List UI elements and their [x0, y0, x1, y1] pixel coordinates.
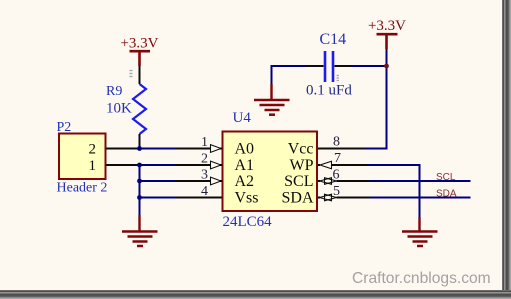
pin 2 of P2 (wire to node A0) — [106, 148, 140, 150]
svg-text:U4: U4 — [233, 110, 252, 126]
pin 1 of P2 (wire to ground node) — [106, 164, 140, 166]
svg-text:A1: A1 — [235, 157, 255, 174]
svg-text:10K: 10K — [106, 100, 132, 116]
svg-text:1: 1 — [201, 135, 208, 150]
svg-text:SDA: SDA — [436, 188, 457, 199]
svg-text:5: 5 — [333, 184, 340, 199]
no-ERC marker (gray dashes at C14) — [337, 76, 340, 81]
svg-text:+3.3V: +3.3V — [368, 18, 406, 34]
svg-text:2: 2 — [201, 152, 208, 167]
wire A2 row (blue) — [140, 180, 177, 182]
ground (right) — [402, 217, 438, 246]
U4 pin 2 (A1) — [176, 161, 222, 169]
wire Vss row (blue) — [140, 197, 177, 199]
wire net SDA — [370, 197, 471, 199]
junction node A0 — [137, 146, 142, 151]
resistor R9 — [133, 84, 146, 134]
svg-text:R9: R9 — [106, 84, 122, 99]
power symbol +3.3V bar (right) — [377, 34, 398, 49]
svg-text:0.1 uFd: 0.1 uFd — [306, 83, 352, 99]
wire (resistor to node A0) — [139, 134, 141, 149]
U4 pin 8 (Vcc) — [318, 148, 365, 150]
svg-text:SCL: SCL — [436, 172, 456, 183]
capacitor C14 — [306, 51, 352, 82]
svg-text:3: 3 — [201, 168, 208, 183]
svg-text:SDA: SDA — [281, 190, 313, 207]
svg-text:A0: A0 — [235, 141, 255, 158]
svg-text:+3.3V: +3.3V — [120, 36, 158, 52]
wire cap left to ground — [272, 66, 307, 84]
svg-text:6: 6 — [333, 168, 340, 183]
wire A0 row (blue) — [140, 148, 177, 150]
junction node A1 — [137, 163, 142, 168]
ground (capacitor) — [254, 84, 290, 115]
svg-text:1: 1 — [89, 158, 97, 174]
no-ERC marker (gray dashes) — [130, 71, 133, 77]
wire WP to ground — [368, 165, 420, 217]
svg-text:8: 8 — [333, 135, 340, 150]
svg-text:C14: C14 — [320, 31, 347, 48]
connector P2 body — [59, 134, 106, 180]
U4 pin 1 (A0) — [176, 145, 222, 153]
ground (left) — [122, 215, 158, 246]
svg-text:2: 2 — [89, 142, 97, 158]
wire cap right to rail — [352, 65, 387, 67]
svg-text:WP: WP — [290, 157, 314, 174]
svg-text:SCL: SCL — [284, 173, 313, 190]
junction node A2 — [137, 179, 142, 184]
svg-text:Vss: Vss — [235, 190, 259, 207]
svg-text:4: 4 — [201, 184, 208, 199]
junction (cap / rail) — [384, 64, 389, 69]
svg-text:Vcc: Vcc — [288, 141, 314, 158]
junction node Vss — [137, 195, 142, 200]
U4 pin 3 (A2) — [176, 177, 222, 185]
wire (vertical ground bus) — [139, 165, 141, 215]
svg-text:Craftor.cnblogs.com: Craftor.cnblogs.com — [352, 270, 491, 287]
wire net SCL — [370, 180, 471, 182]
U4 pin 7 (WP) — [318, 161, 368, 169]
IC U4 body — [223, 132, 318, 212]
U4 pin 4 (Vss) — [176, 197, 222, 199]
svg-text:24LC64: 24LC64 — [223, 214, 273, 230]
svg-text:Header 2: Header 2 — [57, 181, 108, 196]
wire A1 row (blue) — [140, 164, 177, 166]
power symbol +3.3V bar (left) — [130, 51, 151, 66]
svg-text:7: 7 — [334, 151, 341, 166]
svg-text:A2: A2 — [235, 173, 255, 190]
wire (power to resistor) — [139, 66, 141, 84]
wire Vcc to +3.3V rail — [365, 49, 387, 149]
U4 pin 5 (SDA) — [318, 194, 370, 201]
U4 pin 6 (SCL) — [318, 178, 370, 185]
